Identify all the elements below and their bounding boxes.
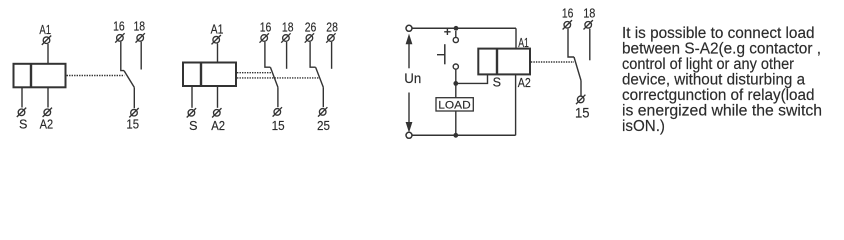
svg-text:18: 18 <box>282 21 294 35</box>
svg-text:16: 16 <box>562 6 574 20</box>
svg-text:between S-A2(e.g contactor ,: between S-A2(e.g contactor , <box>622 40 821 57</box>
svg-text:16: 16 <box>113 19 125 33</box>
svg-text:18: 18 <box>134 19 146 33</box>
svg-text:A1: A1 <box>518 36 529 50</box>
svg-text:S: S <box>189 118 198 133</box>
svg-text:A1: A1 <box>39 23 51 37</box>
svg-text:A1: A1 <box>211 23 224 37</box>
svg-text:16: 16 <box>260 21 272 35</box>
svg-text:device, without disturbing a: device, without disturbing a <box>622 72 805 89</box>
svg-text:A2: A2 <box>211 118 225 133</box>
svg-text:18: 18 <box>583 6 595 20</box>
svg-text:isON.): isON.) <box>622 118 665 135</box>
svg-text:A2: A2 <box>518 76 531 90</box>
svg-text:S: S <box>19 117 27 131</box>
svg-text:control of light or any other: control of light or any other <box>622 56 794 73</box>
svg-text:S: S <box>493 76 501 90</box>
svg-text:28: 28 <box>326 21 338 35</box>
svg-text:25: 25 <box>317 118 330 133</box>
svg-text:is energized while the switch: is energized while the switch <box>622 103 822 120</box>
svg-text:26: 26 <box>305 21 317 35</box>
svg-text:It is possible to connect load: It is possible to connect load <box>622 25 815 42</box>
svg-text:15: 15 <box>272 118 285 133</box>
svg-text:correctgunction of relay(load: correctgunction of relay(load <box>622 87 815 104</box>
svg-text:LOAD: LOAD <box>438 100 470 112</box>
svg-text:15: 15 <box>126 117 139 131</box>
svg-text:A2: A2 <box>40 117 54 131</box>
svg-text:Un: Un <box>404 71 421 86</box>
svg-text:15: 15 <box>575 105 590 120</box>
